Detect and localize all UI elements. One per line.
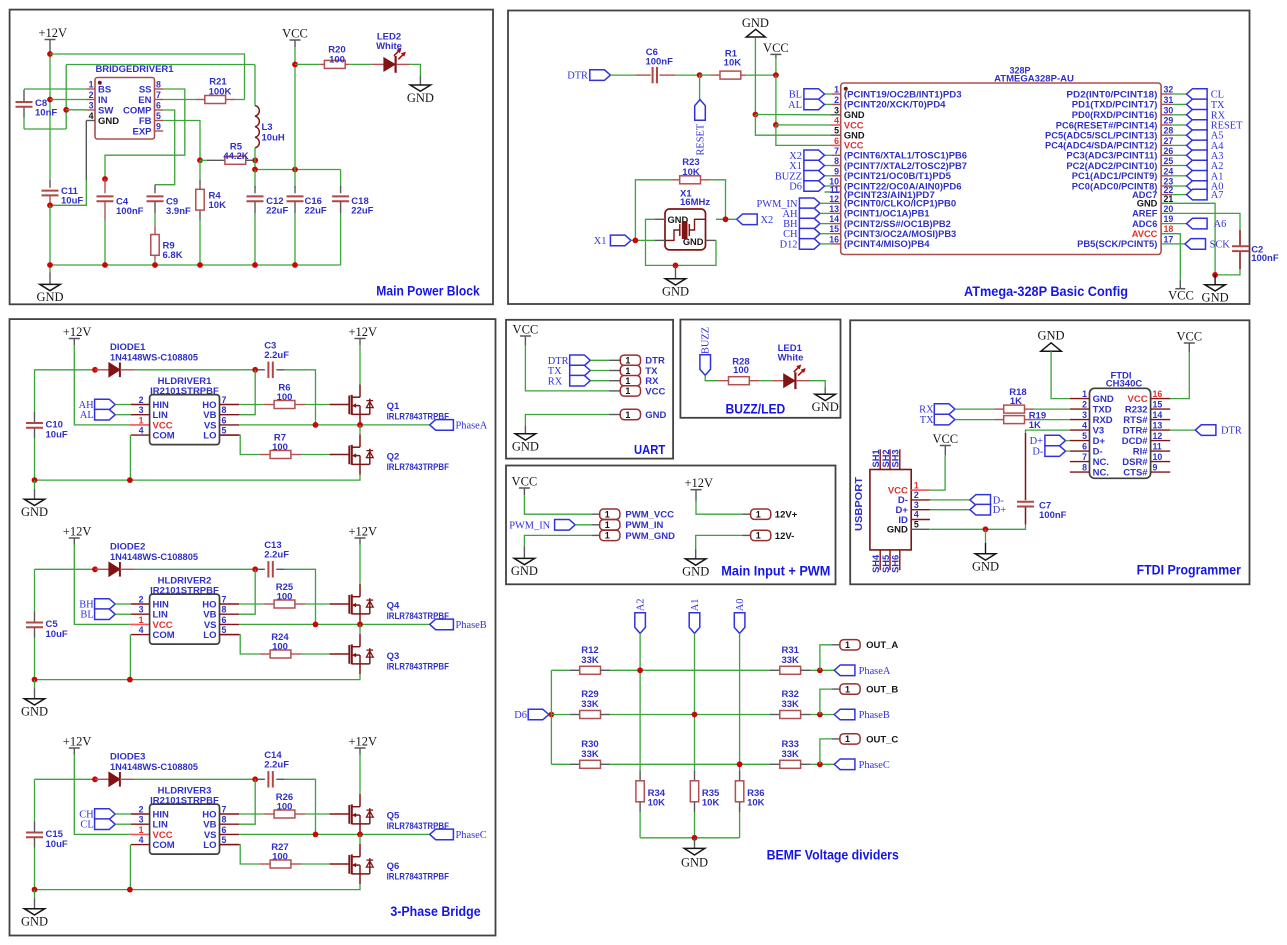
svg-text:Main Power Block: Main Power Block xyxy=(376,284,480,299)
wire RX xyxy=(590,380,609,382)
ground bottom right xyxy=(1214,275,1216,285)
pin 13 DTR# xyxy=(1151,429,1171,431)
svg-text:44.2K: 44.2K xyxy=(223,151,248,162)
svg-text:RESET: RESET xyxy=(695,123,706,155)
wire FB to R5 xyxy=(163,121,200,161)
ground BEMF xyxy=(694,838,696,849)
pin 8 VB xyxy=(220,414,240,416)
pin 5 LO xyxy=(220,634,240,636)
wire Q6 source to rail xyxy=(35,884,361,889)
svg-text:4: 4 xyxy=(139,426,144,436)
svg-text:28: 28 xyxy=(1164,126,1174,136)
junction rail left xyxy=(32,477,38,483)
junction phase node xyxy=(357,832,363,838)
wire VCC to PWM_VCC xyxy=(524,495,591,514)
wire BEMF gnd rail xyxy=(640,837,740,839)
svg-text:12V-: 12V- xyxy=(775,531,795,542)
junction BEMF gnd xyxy=(692,835,698,841)
pin 13 (PCINT1/OC1A)PB1 xyxy=(831,212,841,214)
svg-text:8: 8 xyxy=(222,405,227,415)
pin 7 EN xyxy=(155,99,164,101)
pin 14 RTS# xyxy=(1151,419,1171,421)
ground UART xyxy=(524,425,526,434)
svg-text:PD1(TXD/PCINT17): PD1(TXD/PCINT17) xyxy=(1072,100,1158,110)
svg-text:4: 4 xyxy=(89,111,94,121)
pin 8 (PCINT7/XTAL2/TOSC2)PB7 xyxy=(825,165,833,167)
wire X1 to R23 xyxy=(635,180,671,241)
global label SCK xyxy=(1185,239,1206,250)
svg-text:White: White xyxy=(376,41,402,52)
svg-text:(PCINT7/XTAL2/TOSC2)PB7: (PCINT7/XTAL2/TOSC2)PB7 xyxy=(844,161,967,171)
wire VB xyxy=(239,370,255,415)
wire USB D- xyxy=(930,499,970,501)
svg-text:7: 7 xyxy=(222,805,227,815)
svg-text:32: 32 xyxy=(1164,85,1174,95)
svg-text:1: 1 xyxy=(845,640,850,650)
svg-text:RX: RX xyxy=(548,376,563,387)
svg-text:3: 3 xyxy=(139,605,144,615)
connector pin 12V+ xyxy=(743,513,751,515)
svg-text:1: 1 xyxy=(625,366,630,376)
svg-text:PD0(RXD/PCINT16): PD0(RXD/PCINT16) xyxy=(1072,110,1158,120)
junction gnd C7 xyxy=(983,526,989,532)
wire V3 to C7 xyxy=(1026,430,1070,433)
svg-text:14: 14 xyxy=(1153,410,1163,420)
pin 26 PC3(ADC3/PCINT11) xyxy=(1161,154,1171,156)
resistor R4 xyxy=(199,160,201,180)
wire DTR xyxy=(1170,429,1195,431)
wire R27 to gate xyxy=(301,863,329,865)
wire PWM_IN xyxy=(820,202,831,204)
svg-text:Q4: Q4 xyxy=(387,601,400,612)
svg-text:10K: 10K xyxy=(747,798,765,809)
capacitor C4 xyxy=(104,179,106,193)
svg-text:6: 6 xyxy=(222,825,227,835)
pin 9 EXP xyxy=(155,130,164,132)
svg-text:1: 1 xyxy=(834,85,839,95)
wire VS phase xyxy=(239,833,430,835)
svg-text:GND: GND xyxy=(36,290,63,304)
svg-text:9: 9 xyxy=(1153,462,1158,472)
svg-text:Q1: Q1 xyxy=(387,401,400,412)
ground PhaseC xyxy=(34,890,36,899)
wire GND pin 4 xyxy=(85,121,87,181)
svg-text:VCC: VCC xyxy=(763,41,789,55)
svg-text:DTR: DTR xyxy=(567,71,588,82)
inductor L3 xyxy=(254,65,256,106)
wire to OUT_A xyxy=(820,645,832,671)
svg-text:A7: A7 xyxy=(1211,190,1224,201)
pin 30 PD0(RXD/PCINT16) xyxy=(1161,114,1171,116)
svg-text:3: 3 xyxy=(834,105,839,115)
wire BH xyxy=(115,603,131,605)
pin 24 PC1(ADC1/PCINT9) xyxy=(1161,175,1171,177)
pin 5 LO xyxy=(220,434,240,436)
block border Main Power Block xyxy=(10,10,493,305)
IC U3 CH340C xyxy=(1090,388,1151,478)
wire SW vertical xyxy=(65,65,67,130)
svg-text:ATmega-328P Basic Config: ATmega-328P Basic Config xyxy=(964,284,1128,299)
svg-text:D-: D- xyxy=(1093,446,1103,457)
svg-text:USBPORT: USBPORT xyxy=(854,476,865,531)
wire VS phase xyxy=(239,424,430,426)
svg-text:3: 3 xyxy=(1082,410,1087,420)
svg-text:COM: COM xyxy=(153,840,175,851)
svg-text:LO: LO xyxy=(203,840,216,851)
svg-text:10uH: 10uH xyxy=(262,133,285,144)
IC HLDRIVER3 IR2101STRPBF xyxy=(150,804,220,854)
junction +12V top xyxy=(47,51,53,57)
ground PWM right xyxy=(695,549,697,559)
global label X2 xyxy=(737,214,758,225)
pin 6 D- xyxy=(1070,450,1090,452)
svg-text:PWM_IN: PWM_IN xyxy=(509,520,550,531)
pin 16 (PCINT4/MISO)PB4 xyxy=(831,243,841,245)
svg-text:100nF: 100nF xyxy=(116,206,144,217)
global label PhaseC xyxy=(430,829,454,840)
pin 4 VCC xyxy=(831,124,841,126)
svg-text:VCC: VCC xyxy=(1168,289,1194,303)
capacitor C5 xyxy=(34,569,36,611)
pin 16 VCC xyxy=(1151,398,1171,400)
svg-text:1: 1 xyxy=(1082,389,1087,399)
svg-text:1: 1 xyxy=(605,531,610,541)
svg-text:BS: BS xyxy=(98,84,111,95)
svg-text:EN: EN xyxy=(138,95,151,106)
wire to pin5 xyxy=(755,115,830,136)
pin 14 (PCINT2/SS#/OC1B)PB2 xyxy=(831,223,841,225)
resistor R9 xyxy=(154,226,156,235)
wire to OUT_C xyxy=(820,739,832,764)
capacitor C11 xyxy=(49,180,51,188)
wire to RESET label xyxy=(699,75,701,100)
svg-text:RX: RX xyxy=(919,405,934,416)
pin 4 COM xyxy=(131,844,150,846)
pin 8 NC. xyxy=(1070,471,1090,473)
svg-text:2: 2 xyxy=(89,90,94,100)
svg-text:3-Phase Bridge: 3-Phase Bridge xyxy=(390,904,481,919)
svg-text:1: 1 xyxy=(845,684,850,694)
svg-text:BEMF Voltage dividers: BEMF Voltage dividers xyxy=(767,848,899,863)
svg-text:GND: GND xyxy=(511,564,538,578)
wire D+ xyxy=(1066,440,1070,442)
wire phase to Q6 drain xyxy=(359,834,361,844)
pin 5 D+ xyxy=(1070,440,1090,442)
block border ATmega-328P Basic Config xyxy=(508,11,1250,305)
svg-text:12: 12 xyxy=(1153,431,1163,441)
resistor R31 xyxy=(770,669,780,671)
pin 2 TXD xyxy=(1070,408,1090,410)
pin 12 (PCINT0/CLKO/ICP1)PB0 xyxy=(831,202,841,204)
junction gnd C16 xyxy=(292,262,298,268)
pin 1 GND xyxy=(1070,398,1090,400)
wire BUZZ to R28 xyxy=(705,375,718,380)
pin 7 HO xyxy=(220,404,240,406)
svg-text:2: 2 xyxy=(834,95,839,105)
svg-text:PD2(INT0/PCINT18): PD2(INT0/PCINT18) xyxy=(1066,89,1157,99)
wire VCC to pin16 xyxy=(1170,352,1189,399)
svg-text:100: 100 xyxy=(329,54,345,65)
wire C to VS xyxy=(285,569,316,624)
svg-text:BL: BL xyxy=(789,90,802,101)
junction R5 L3 xyxy=(252,157,258,163)
wire phase to Q3 drain xyxy=(359,624,361,634)
capacitor C18 xyxy=(340,170,342,188)
pin 10 (PCINT22/OC0A/AIN0)PD6 xyxy=(825,185,833,187)
crystal X1 xyxy=(665,209,706,250)
wire GND UART xyxy=(525,415,608,426)
pin 2 HIN xyxy=(131,404,150,406)
wire R26 to gate xyxy=(305,813,329,815)
svg-text:100: 100 xyxy=(272,851,288,862)
pin SH4 USBPORT xyxy=(879,550,881,570)
wire +12V rail xyxy=(49,54,51,180)
svg-text:4: 4 xyxy=(914,510,919,520)
svg-text:PhaseA: PhaseA xyxy=(859,666,891,677)
svg-text:VCC: VCC xyxy=(1128,394,1148,405)
svg-text:CH340C: CH340C xyxy=(1106,379,1143,390)
diode DIODE2 xyxy=(95,568,109,570)
IC HLDRIVER2 IR2101STRPBF xyxy=(150,594,220,644)
svg-text:33K: 33K xyxy=(581,749,599,760)
svg-text:+12V: +12V xyxy=(349,525,378,539)
svg-text:PC3(ADC3/PCINT11): PC3(ADC3/PCINT11) xyxy=(1066,151,1157,161)
wire C6 to R1 xyxy=(675,74,700,76)
wire HO to R26 xyxy=(239,813,264,815)
svg-text:BL: BL xyxy=(80,610,93,621)
block border BUZZ/LED xyxy=(680,320,840,418)
junction GND pin3 xyxy=(753,112,759,118)
pin 32 PD2(INT0/PCINT18) xyxy=(1161,93,1171,95)
wire BS to C8 xyxy=(24,88,86,90)
pin 6 VS xyxy=(220,833,240,835)
pin 4 V3 xyxy=(1070,429,1090,431)
pin 27 PC4(ADC4/SDA/PCINT12) xyxy=(1161,144,1171,146)
diode DIODE3 xyxy=(95,778,109,780)
diode DIODE1 xyxy=(95,369,109,371)
wire C top to diode xyxy=(35,568,96,570)
junction phase node xyxy=(357,622,363,628)
svg-text:A2: A2 xyxy=(636,598,647,611)
wire VB xyxy=(239,779,255,824)
svg-text:2.2uF: 2.2uF xyxy=(264,550,289,561)
wire to OUT_B xyxy=(820,689,832,714)
wire VCC to J VCC xyxy=(525,346,608,391)
pin 6 VS xyxy=(220,424,240,426)
wire USB D+ xyxy=(930,509,970,511)
wire HO to R6 xyxy=(239,404,264,406)
svg-text:3: 3 xyxy=(914,500,919,510)
svg-text:1N4148WS-C108805: 1N4148WS-C108805 xyxy=(110,762,199,773)
junction C11 bottom xyxy=(47,202,53,208)
svg-text:GND: GND xyxy=(21,505,48,519)
svg-text:VCC: VCC xyxy=(513,323,539,337)
junction X1 node xyxy=(633,238,639,244)
transistor Q6 IRLR7843TRPBF xyxy=(330,863,350,865)
transistor Q2 IRLR7843TRPBF xyxy=(330,454,350,456)
svg-text:TXD: TXD xyxy=(1093,404,1112,415)
wire GND down xyxy=(754,38,756,115)
wire row mid R30 xyxy=(610,763,769,765)
junction diode anode xyxy=(92,776,98,782)
pin 3 SW xyxy=(86,109,95,111)
svg-text:2: 2 xyxy=(914,490,919,500)
wire +12V to Q4 drain xyxy=(359,545,361,585)
svg-text:2: 2 xyxy=(139,395,144,405)
global label RX xyxy=(1187,110,1208,121)
wire COM to gnd rail xyxy=(129,845,131,890)
svg-text:VCC: VCC xyxy=(645,386,665,397)
svg-text:Q5: Q5 xyxy=(387,811,400,822)
transistor Q3 IRLR7843TRPBF xyxy=(330,653,350,655)
svg-text:13: 13 xyxy=(1153,420,1163,430)
svg-text:GND: GND xyxy=(1137,199,1158,209)
svg-text:5: 5 xyxy=(914,520,919,530)
svg-text:3: 3 xyxy=(139,815,144,825)
svg-text:5: 5 xyxy=(222,625,227,635)
ground USB xyxy=(985,529,987,543)
block border 3-Phase Bridge xyxy=(10,319,496,935)
wire PWM_IN xyxy=(575,524,592,526)
svg-text:8: 8 xyxy=(834,156,839,166)
wire +12V to R21 xyxy=(50,54,245,100)
junction VOUT C12 xyxy=(252,167,258,173)
svg-text:(PCINT1/OC1A)PB1: (PCINT1/OC1A)PB1 xyxy=(844,209,930,219)
resistor R7 xyxy=(260,454,270,456)
wire row mid R29 xyxy=(610,714,769,716)
global label A0 xyxy=(1187,181,1208,192)
svg-text:(PCINT20/XCK/T0)PD4: (PCINT20/XCK/T0)PD4 xyxy=(844,100,947,110)
svg-text:CTS#: CTS# xyxy=(1123,467,1148,478)
capacitor C14 xyxy=(258,778,265,780)
svg-text:PB5(SCK/PCINT5): PB5(SCK/PCINT5) xyxy=(1077,239,1157,249)
svg-text:17: 17 xyxy=(1164,234,1174,244)
wire C to VS xyxy=(285,779,316,834)
svg-text:10K: 10K xyxy=(648,798,666,809)
ground main xyxy=(49,265,51,273)
svg-text:COM: COM xyxy=(153,630,175,641)
svg-text:D+: D+ xyxy=(1093,436,1106,447)
junction C VS xyxy=(313,832,319,838)
pin 5 FB xyxy=(155,120,164,122)
LED LED2 xyxy=(350,63,372,65)
block border UART xyxy=(506,320,673,459)
wire to pin4 xyxy=(776,124,831,126)
svg-text:6.8K: 6.8K xyxy=(163,250,183,261)
svg-text:D+: D+ xyxy=(993,505,1007,516)
wire C to VS xyxy=(285,370,316,425)
pin 3 LIN xyxy=(131,823,150,825)
wire BL xyxy=(115,613,131,615)
svg-text:GND: GND xyxy=(21,705,48,719)
pin 22 ADC7 xyxy=(1161,194,1171,196)
connector pin DTR xyxy=(609,359,621,361)
wire R19 to pin3 xyxy=(1034,419,1070,421)
junction out node xyxy=(817,712,823,718)
svg-text:Q2: Q2 xyxy=(387,452,400,463)
svg-text:X1: X1 xyxy=(594,236,607,247)
capacitor C7 xyxy=(1025,433,1027,500)
power flag VCC bottom xyxy=(1179,280,1181,289)
resistor R29 xyxy=(570,714,580,716)
svg-text:33K: 33K xyxy=(781,749,799,760)
wire SW pin xyxy=(66,109,86,111)
svg-text:(PCINT4/MISO)PB4: (PCINT4/MISO)PB4 xyxy=(844,239,930,249)
pin 6 VS xyxy=(220,623,240,625)
svg-text:PC5(ADC5/SCL/PCINT13): PC5(ADC5/SCL/PCINT13) xyxy=(1045,131,1157,141)
global label PhaseA xyxy=(430,420,454,431)
wire C8 bottom xyxy=(24,128,66,130)
svg-text:12: 12 xyxy=(829,194,839,204)
pin 23 PC0(ADC0/PCINT8) xyxy=(1161,185,1171,187)
svg-text:AREF: AREF xyxy=(1132,209,1158,219)
svg-text:10uF: 10uF xyxy=(61,196,83,207)
svg-text:1: 1 xyxy=(914,480,919,490)
wire diode to C xyxy=(135,568,258,570)
svg-text:+12V: +12V xyxy=(39,26,68,40)
IC U2 ATMEGA328P-AU xyxy=(841,83,1161,255)
pin 11 (PCINT23/AIN1)PD7 xyxy=(825,191,837,193)
pin 3 LIN xyxy=(131,414,150,416)
svg-text:4: 4 xyxy=(1082,420,1087,430)
pin 8 VB xyxy=(220,613,240,615)
svg-text:2.2uF: 2.2uF xyxy=(264,760,289,771)
capacitor C10 xyxy=(34,370,36,412)
svg-text:GND: GND xyxy=(887,525,908,536)
svg-text:D6: D6 xyxy=(789,182,802,193)
svg-text:PhaseB: PhaseB xyxy=(456,620,487,631)
svg-text:CL: CL xyxy=(80,820,93,831)
wire pin19 ADC6 xyxy=(1161,223,1186,225)
svg-text:D6: D6 xyxy=(514,710,527,721)
svg-text:22uF: 22uF xyxy=(351,206,373,217)
pin 1 VCC wire HLDRIVER2 xyxy=(130,623,150,625)
svg-text:(PCINT6/XTAL1/TOSC1)PB6: (PCINT6/XTAL1/TOSC1)PB6 xyxy=(844,151,967,161)
junction out node xyxy=(817,667,823,673)
wire A2 vertical xyxy=(639,633,641,770)
svg-text:2: 2 xyxy=(139,595,144,605)
svg-text:+12V: +12V xyxy=(63,525,92,539)
svg-text:GND: GND xyxy=(407,91,434,105)
svg-text:GND: GND xyxy=(844,110,865,120)
svg-text:1: 1 xyxy=(845,734,850,744)
svg-text:COMP: COMP xyxy=(123,105,152,116)
svg-text:3.9nF: 3.9nF xyxy=(166,206,191,217)
svg-text:SH6: SH6 xyxy=(891,555,901,573)
svg-text:7: 7 xyxy=(222,395,227,405)
pin 7 (PCINT6/XTAL1/TOSC1)PB6 xyxy=(825,154,833,156)
svg-text:+12V: +12V xyxy=(349,325,378,339)
wire TX xyxy=(590,370,609,372)
wire row R29 xyxy=(551,714,570,716)
wire AL xyxy=(115,414,131,416)
junction rail left xyxy=(32,887,38,893)
ground LED2 xyxy=(410,85,430,91)
svg-text:V3: V3 xyxy=(1093,425,1105,436)
svg-text:10: 10 xyxy=(1153,452,1163,462)
junction A1 xyxy=(692,712,698,718)
svg-text:GND: GND xyxy=(645,410,666,421)
global label A6 xyxy=(1187,218,1208,229)
resistor R20 xyxy=(295,63,320,65)
wire IN to +12V xyxy=(50,99,86,101)
pin 9 CTS# xyxy=(1151,471,1171,473)
wire +12V to VCC pin xyxy=(74,755,130,835)
svg-text:13: 13 xyxy=(829,204,839,214)
wire LO to R7 xyxy=(220,434,240,436)
wire CL xyxy=(115,823,131,825)
svg-text:COM: COM xyxy=(153,431,175,442)
